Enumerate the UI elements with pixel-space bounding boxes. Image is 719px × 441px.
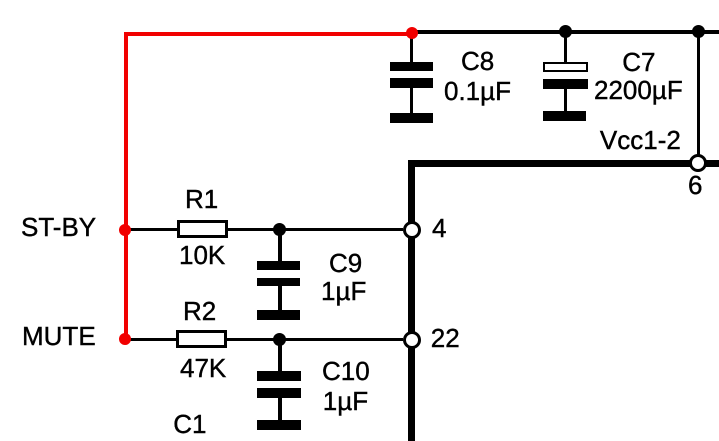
node junction MUTE/C10 bbox=[273, 333, 286, 346]
label C9 bbox=[329, 250, 362, 276]
capacitor C9 bbox=[257, 261, 300, 270]
wire MUTE row bbox=[124, 338, 403, 341]
wire C8 lower lead bbox=[410, 87, 413, 113]
node junction C7/top rail bbox=[559, 25, 572, 38]
label pin number 4 bbox=[432, 215, 446, 241]
wire C10 lower lead bbox=[278, 398, 282, 421]
label C9 value 1uF bbox=[321, 278, 366, 304]
wire red horizontal ST-BY/MUTE feed bbox=[124, 32, 412, 36]
ground C10 bbox=[257, 420, 300, 431]
capacitor C7 bbox=[543, 62, 588, 72]
pin 4 terminal bbox=[403, 221, 421, 239]
node junction ST-BY/C9 bbox=[273, 223, 286, 236]
IC outline left edge bbox=[408, 160, 415, 441]
wire C9 lower lead bbox=[278, 286, 282, 311]
node red junction top rail bbox=[406, 27, 418, 39]
wire C7 top lead bbox=[564, 31, 567, 63]
label R2 bbox=[183, 298, 216, 324]
label MUTE bbox=[22, 323, 96, 349]
wire ST-BY row bbox=[124, 228, 403, 231]
pin 22 terminal bbox=[403, 331, 421, 349]
pin 6 terminal bbox=[689, 154, 707, 172]
wire C7 lower lead bbox=[564, 88, 567, 112]
node junction pin6/top rail bbox=[692, 25, 705, 38]
resistor R1 bbox=[177, 220, 228, 238]
label R1 bbox=[185, 186, 218, 212]
label C7 bbox=[622, 49, 655, 75]
label C1 bbox=[173, 411, 206, 437]
wire C8 top lead bbox=[410, 33, 413, 63]
label pin number 22 bbox=[431, 325, 460, 351]
wire pin 6 lead bbox=[697, 31, 700, 162]
wire C10 top lead bbox=[278, 339, 282, 372]
IC outline top edge bbox=[408, 160, 719, 167]
label C10 value 1uF bbox=[323, 388, 368, 414]
wire C9 top lead bbox=[278, 229, 282, 262]
node red junction ST-BY bbox=[119, 224, 131, 236]
label C8 value 0.1uF bbox=[444, 78, 511, 104]
capacitor C8 bbox=[390, 62, 433, 71]
label C10 bbox=[322, 358, 370, 384]
label pin number 6 bbox=[688, 172, 702, 198]
ground C8 bbox=[390, 113, 433, 123]
label 10K bbox=[179, 242, 225, 268]
ground C9 bbox=[257, 310, 300, 320]
wire red vertical ST-BY/MUTE feed bbox=[124, 32, 128, 340]
label ST-BY bbox=[21, 214, 96, 240]
label net Vcc1-2 bbox=[600, 127, 681, 153]
label 47K bbox=[180, 355, 226, 381]
ground C7 bbox=[543, 111, 587, 121]
label C8 bbox=[461, 48, 494, 74]
node red junction MUTE bbox=[119, 333, 131, 345]
resistor R2 bbox=[176, 330, 227, 348]
wire Vcc top rail bbox=[410, 30, 719, 34]
label C7 value 2200uF bbox=[594, 77, 683, 103]
capacitor C10 bbox=[257, 371, 300, 381]
